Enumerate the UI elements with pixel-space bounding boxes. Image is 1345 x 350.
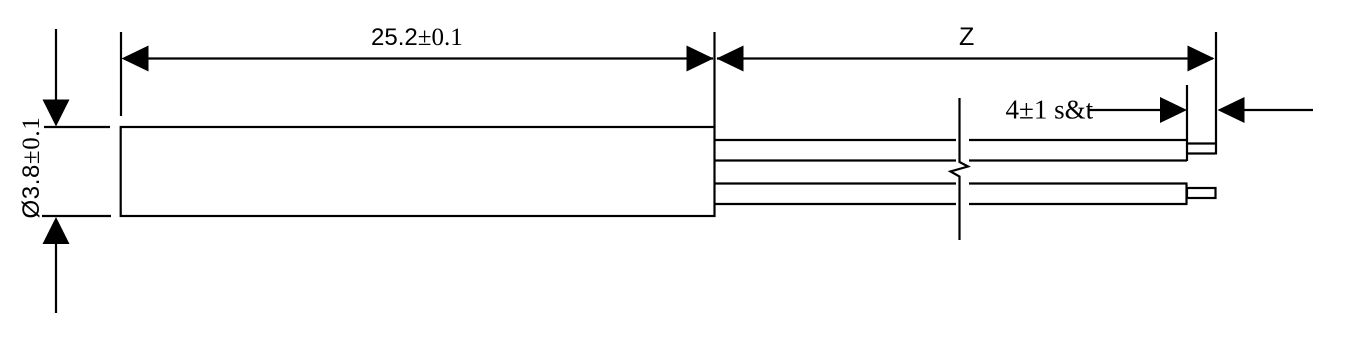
svg-text:4±1 s&t: 4±1 s&t — [1006, 95, 1094, 125]
dim Z dimension line — [717, 57, 1213, 59]
dim Z left arrowhead — [717, 46, 744, 72]
dim 25.2 left extension line — [120, 32, 122, 116]
top wire stripped stub upper line — [1187, 142, 1215, 144]
dim 4±1 left extension line / top wire end edge — [1186, 85, 1188, 161]
top lead wire lower line left segment — [715, 159, 956, 161]
diameter dim bottom arrowhead (up) — [43, 217, 70, 244]
top lead wire upper line left segment — [715, 139, 956, 141]
heater body outline — [121, 127, 715, 216]
diameter dim bottom tick line — [42, 215, 111, 217]
dim 25.2 left arrowhead — [122, 46, 149, 72]
diameter dim top tick line — [44, 126, 110, 128]
diameter dim top arrowhead (down) — [43, 100, 70, 127]
dim 25.2 right arrowhead — [687, 46, 714, 72]
bottom wire stripped stub — [1187, 188, 1216, 198]
dim Z right extension line — [1215, 32, 1217, 155]
bottom lead wire end edge — [1185, 183, 1187, 206]
top wire stripped stub lower line — [1187, 152, 1215, 154]
center extension line at body right edge — [713, 32, 715, 127]
diameter dim top arrow shaft — [55, 29, 57, 102]
bottom lead wire lower line left segment — [715, 203, 956, 205]
top lead wire lower line right segment — [969, 159, 1187, 161]
dim 4±1 leader line from text — [1089, 109, 1162, 111]
bottom lead wire lower line right segment — [969, 203, 1187, 205]
top lead wire upper line right segment — [969, 139, 1187, 141]
wire break line with zigzag — [951, 98, 969, 240]
dim Z right arrowhead — [1188, 46, 1215, 72]
dim 4±1 outward arrowhead (points left) — [1218, 97, 1245, 123]
svg-text:Z: Z — [959, 23, 974, 51]
dim 4±1 right arrow tail line — [1244, 109, 1313, 111]
dim 25.2 dimension line — [124, 57, 713, 59]
dim 4±1 inward arrowhead (points right) — [1160, 97, 1187, 123]
svg-text:25.2±0.1: 25.2±0.1 — [371, 24, 463, 51]
diameter dim bottom arrow shaft — [55, 241, 57, 313]
bottom lead wire upper line left segment — [715, 182, 956, 184]
bottom lead wire upper line right segment — [969, 182, 1187, 184]
svg-text:Ø3.8±0.1: Ø3.8±0.1 — [18, 117, 45, 219]
